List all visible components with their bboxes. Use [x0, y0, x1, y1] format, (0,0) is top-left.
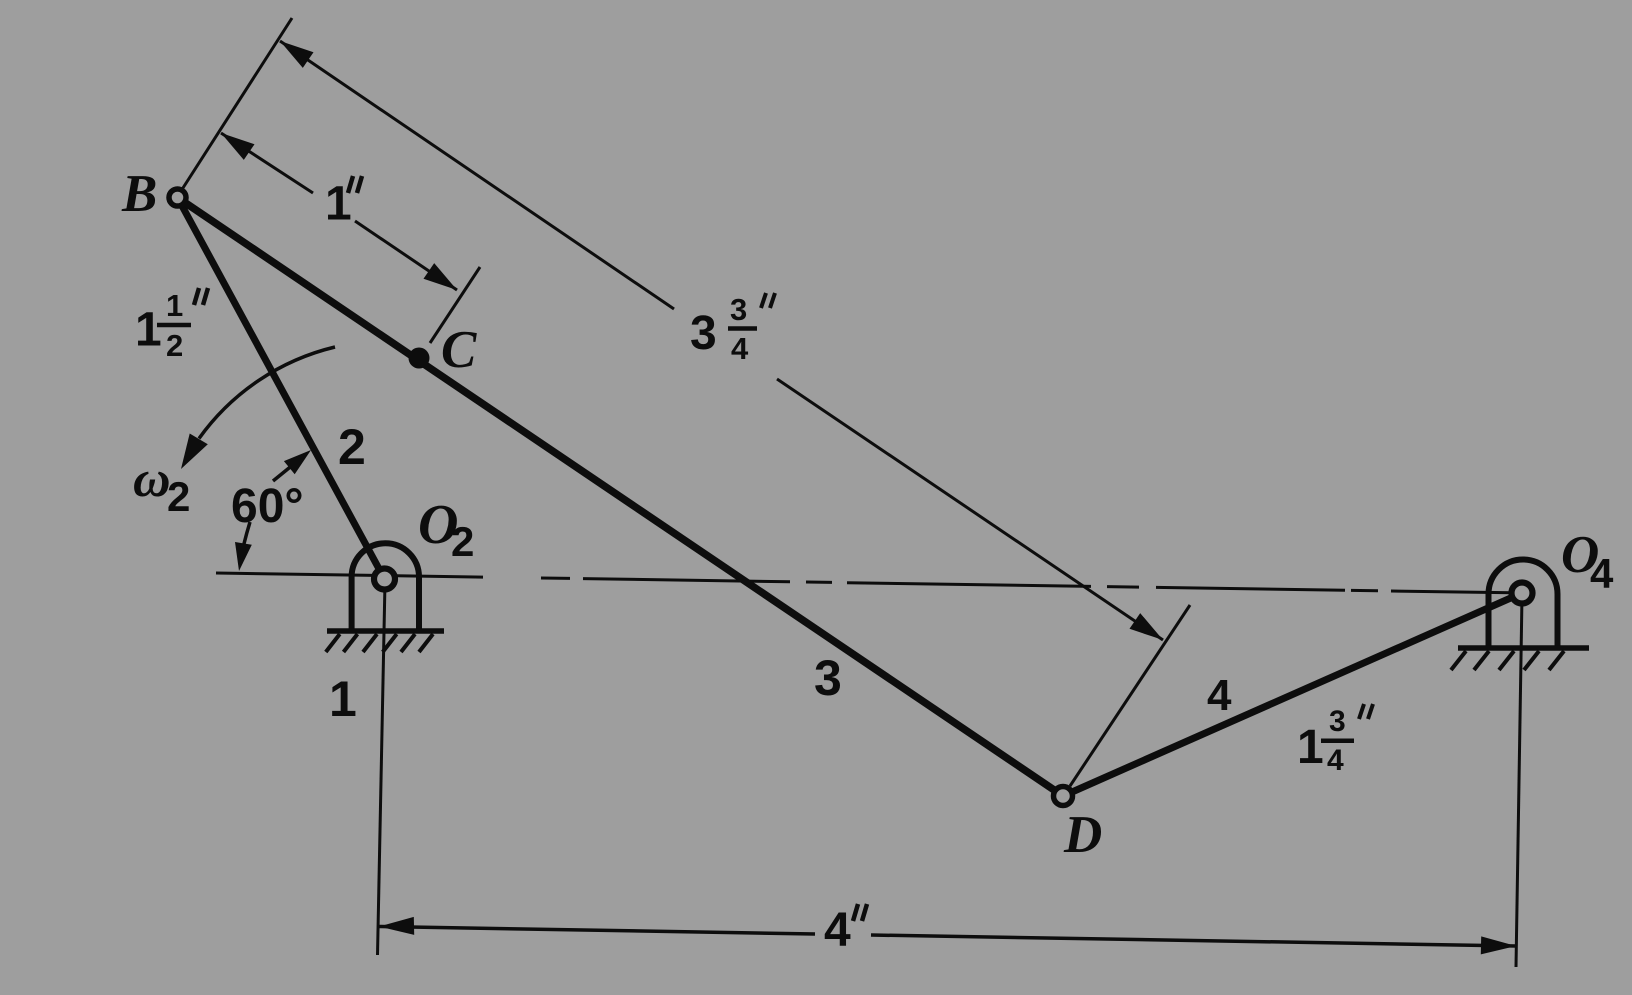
link 2 crank O2-B	[178, 198, 385, 580]
pivot O2 dome bracket	[352, 543, 419, 630]
label O2	[418, 494, 474, 565]
label 1 1/2 inch	[135, 288, 208, 363]
pin joint O2	[374, 569, 395, 590]
pin joint O4	[1512, 583, 1533, 604]
svg-text:4: 4	[824, 904, 851, 957]
svg-text:60°: 60°	[231, 480, 304, 533]
vertical extension from O4	[1516, 596, 1522, 967]
vertical extension from O2	[378, 582, 386, 955]
svg-text:1: 1	[135, 304, 162, 357]
pivot O4 dome bracket	[1489, 560, 1558, 648]
svg-text:B: B	[121, 165, 157, 223]
60 degree leader arrow to link 2	[273, 450, 311, 481]
point C	[409, 348, 430, 369]
ground hatching at O2	[326, 634, 433, 652]
label 1 3/4 inch	[1297, 704, 1373, 777]
svg-text:2: 2	[166, 328, 183, 363]
svg-text:3: 3	[730, 292, 747, 327]
centerline through O2 and O4	[216, 573, 1512, 593]
omega2 angular-velocity arrow arc	[181, 347, 335, 469]
label 4 inch	[824, 904, 867, 957]
60 degree leader arrow to centerline	[235, 522, 252, 571]
dimension line 1 inch B-C	[221, 133, 457, 290]
link 4 rocker D-O4	[1063, 593, 1522, 796]
label 1 inch	[325, 176, 362, 231]
label O4	[1561, 526, 1614, 597]
svg-text:1: 1	[166, 288, 183, 323]
label omega2	[133, 451, 190, 520]
svg-text:3: 3	[1329, 705, 1346, 738]
ground line at O4	[1458, 645, 1589, 651]
svg-text:4: 4	[1327, 744, 1344, 777]
svg-text:1: 1	[325, 178, 352, 231]
svg-text:4: 4	[1207, 671, 1232, 720]
svg-text:3: 3	[814, 650, 842, 706]
svg-text:1: 1	[329, 671, 357, 727]
dimension line 3 3/4 inch B-D	[280, 41, 1163, 640]
dimension line 4 inch O2-O4	[379, 917, 1516, 955]
link 3 coupler B-D	[178, 198, 1064, 797]
label 3 3/4 inch	[690, 292, 775, 366]
ground hatching at O4	[1451, 651, 1564, 670]
svg-text:ω: ω	[133, 451, 171, 508]
svg-text:3: 3	[690, 307, 717, 360]
svg-text:C: C	[441, 321, 477, 379]
svg-text:2: 2	[338, 419, 366, 475]
extension line from B	[181, 18, 292, 191]
tick line at C	[430, 267, 480, 343]
svg-text:D: D	[1063, 806, 1102, 864]
svg-text:4: 4	[1590, 550, 1614, 597]
joint D	[1054, 787, 1073, 806]
svg-text:1: 1	[1297, 721, 1324, 774]
ground line at O2	[327, 628, 444, 634]
svg-text:4: 4	[731, 331, 749, 366]
joint B	[169, 189, 186, 206]
svg-text:2: 2	[451, 518, 474, 565]
svg-text:2: 2	[167, 473, 190, 520]
extension line from D	[1070, 605, 1190, 786]
